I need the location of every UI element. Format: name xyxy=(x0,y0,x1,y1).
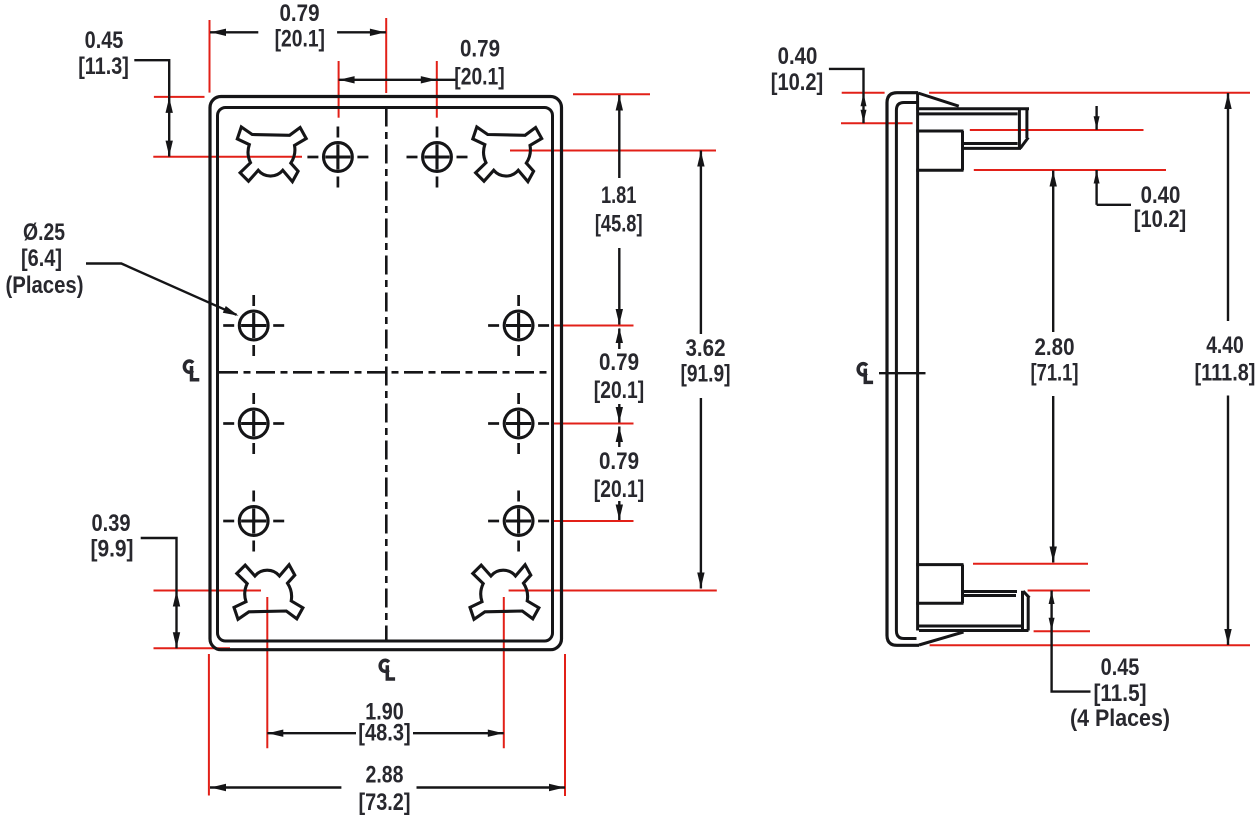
svg-text:[11.3]: [11.3] xyxy=(78,53,129,80)
dimension 3.62 [91.9] arrow up xyxy=(697,151,704,167)
dimension 0.79 [20.1] second tail xyxy=(437,79,456,81)
svg-text:[91.9]: [91.9] xyxy=(681,361,731,388)
mounting hole row2 left xyxy=(223,295,284,356)
dimension 4.40 [111.8] arrow down xyxy=(1224,629,1231,645)
dimension 1.81 [45.8] arrow down xyxy=(616,309,623,325)
dimension 0.79 [20.1] top arrow left xyxy=(211,29,227,36)
dimension 2.88 [73.2] line right xyxy=(417,786,566,788)
side view back wall inner line xyxy=(896,103,916,639)
side view bottom step line xyxy=(916,563,963,566)
extension line step bottom (side view) xyxy=(974,169,1166,171)
dimension 0.45 [11.3] leader elbow xyxy=(134,60,169,97)
dimension 0.45 [11.3] arrow line xyxy=(168,97,170,157)
side view front face vertical xyxy=(916,93,919,631)
dimension 0.45 [11.5] arrow down xyxy=(1049,618,1055,631)
extension line clip bottom-right vertical (front view) xyxy=(503,597,505,748)
side view top step line xyxy=(916,130,963,133)
dimension 0.40 [10.2] TL leader elbow xyxy=(829,69,864,93)
side view bottom chamfer diagonal xyxy=(919,632,964,645)
svg-text:0.79: 0.79 xyxy=(599,448,639,475)
extension line clip row bottom left (front view) xyxy=(154,590,262,592)
svg-text:[6.4]: [6.4] xyxy=(21,245,62,272)
hole diameter leader arrowhead xyxy=(223,306,239,316)
mounting hole row4 left xyxy=(223,491,284,552)
dimension 0.79 right2 arrow down xyxy=(616,505,623,521)
dimension 0.45 [11.5] arrow up xyxy=(1049,591,1055,604)
dimension 0.40 [10.2] TL arrow down xyxy=(861,110,867,123)
svg-text:Ø.25: Ø.25 xyxy=(23,219,65,246)
centerline symbol bottom xyxy=(380,660,395,679)
dimension 1.90 [48.3] line left xyxy=(267,732,356,734)
side view bottom tab end outer vertical xyxy=(1027,598,1030,631)
dimension 0.39 [9.9] arrow down xyxy=(173,632,180,648)
dimension 3.62 [91.9] arrow down xyxy=(697,573,704,589)
dimension 0.79 right1 arrow down xyxy=(616,407,623,423)
svg-text:4.40: 4.40 xyxy=(1206,332,1244,359)
dimension 0.79 right2 arrow line down xyxy=(618,501,620,520)
svg-text:0.79: 0.79 xyxy=(460,36,500,63)
extension line top-left tick (front view) xyxy=(154,96,205,98)
dimension 0.79 right2 arrow line up xyxy=(618,427,620,448)
extension line top-right tick (front view) xyxy=(573,93,650,95)
dimension 0.45 [11.3] arrow up xyxy=(166,97,173,113)
dimension 1.90 [48.3] line right xyxy=(413,732,504,734)
svg-text:0.79: 0.79 xyxy=(280,0,320,27)
svg-text:[9.9]: [9.9] xyxy=(91,536,134,563)
extension line clip bottom-left vertical (front view) xyxy=(266,597,268,748)
dimension 3.62 [91.9] line upper xyxy=(700,151,702,335)
svg-text:[111.8]: [111.8] xyxy=(1195,360,1256,387)
svg-text:3.62: 3.62 xyxy=(686,335,726,362)
svg-text:[20.1]: [20.1] xyxy=(454,64,504,91)
extension line bottom tab bottom (side view) xyxy=(1034,630,1090,632)
dimension 0.40 [10.2] TL arrow up xyxy=(861,93,867,106)
extension line bottom-left tick (front view) xyxy=(154,647,231,649)
dimension 0.40 [10.2] R upper arrow line xyxy=(1095,106,1097,130)
svg-text:1.81: 1.81 xyxy=(601,182,637,209)
extension line bottom step top (side view) xyxy=(973,563,1088,565)
extension line hole row 2 right (front view) xyxy=(552,325,634,327)
mounting hole row3 right xyxy=(488,393,549,454)
corner clip bottom-right xyxy=(470,565,539,620)
dimension 2.80 [71.1] line lower xyxy=(1052,396,1054,563)
extension line bottom tab top (side view) xyxy=(1028,590,1090,592)
corner clip top-left xyxy=(237,127,306,182)
dimension 0.40 [10.2] R lower arrow line xyxy=(1095,170,1097,205)
side view centerline tick xyxy=(879,372,926,374)
extension line top edge right (side view) xyxy=(929,92,1250,94)
mounting hole row3 left xyxy=(223,393,284,454)
side view top tab end outer vertical xyxy=(1025,108,1028,138)
svg-text:[73.2]: [73.2] xyxy=(359,789,411,816)
svg-text:[71.1]: [71.1] xyxy=(1031,360,1079,387)
dimension 0.45 [11.3] arrow down xyxy=(166,141,173,157)
dimension 1.81 [45.8] arrow up xyxy=(616,95,623,111)
svg-text:[11.5]: [11.5] xyxy=(1094,680,1147,707)
svg-text:[48.3]: [48.3] xyxy=(358,720,410,747)
dimension 4.40 [111.8] line lower xyxy=(1227,396,1229,646)
dimension 0.39 [9.9] arrow up xyxy=(173,591,180,607)
side view bottom tab outer top xyxy=(963,590,1017,593)
mounting hole row1 right xyxy=(407,127,468,188)
side view top tab end chamfer xyxy=(1020,138,1028,149)
dimension 0.45 [11.5] arrow line xyxy=(1050,591,1052,632)
svg-text:0.45: 0.45 xyxy=(1101,654,1140,681)
dimension 0.45 [11.5] leader elbow xyxy=(1052,631,1091,691)
mounting hole row4 right xyxy=(488,491,549,552)
side view top block bottom xyxy=(916,169,963,172)
extension line hole row 3 right (front view) xyxy=(552,423,634,425)
centerline symbol left xyxy=(184,361,199,380)
dimension 1.81 [45.8] line upper xyxy=(618,95,620,178)
extension line hole column 2 vertical (front view) xyxy=(436,61,438,118)
dimension 3.62 [91.9] line lower xyxy=(700,398,702,589)
battery holder front view inner wall outline xyxy=(218,108,553,642)
dimension 2.80 [71.1] line upper xyxy=(1052,171,1054,333)
dimension 0.79 [20.1] top line left segment xyxy=(210,31,258,33)
mounting hole row2 right xyxy=(488,295,549,356)
side view top flange inner top xyxy=(918,112,1018,115)
side view top flange outer top xyxy=(916,107,1029,110)
side view bottom tab inner bottom xyxy=(917,625,1023,628)
dimension 0.40 [10.2] TL arrow line xyxy=(862,93,864,124)
dimension 0.79 right1 arrow line up xyxy=(618,329,620,350)
extension line centerline vertical (front view) xyxy=(385,18,387,93)
corner clip top-right xyxy=(473,127,542,182)
side view bottom tab outer bottom xyxy=(919,629,1029,632)
extension line left edge vertical (front view) xyxy=(209,20,211,93)
dimension 2.80 [71.1] arrow down xyxy=(1050,547,1057,563)
extension line bottom edge (side view) xyxy=(930,644,1250,646)
svg-text:(Places): (Places) xyxy=(6,272,84,299)
dimension 2.88 [73.2] arrow left xyxy=(211,784,227,791)
dimension 1.90 [48.3] arrow right xyxy=(488,730,504,737)
side view bottom tab inner top xyxy=(964,594,1017,597)
svg-text:[20.1]: [20.1] xyxy=(594,476,644,503)
side view top tab inner bottom xyxy=(963,142,1018,145)
svg-text:[45.8]: [45.8] xyxy=(595,211,643,238)
extension line clip row bottom right (front view) xyxy=(509,590,717,592)
centerline symbol side view xyxy=(858,364,873,383)
svg-text:[20.1]: [20.1] xyxy=(275,26,325,53)
side view top tab end inner vertical xyxy=(1018,108,1021,148)
dimension 2.88 [73.2] arrow right xyxy=(549,784,565,791)
dimension 0.40 [10.2] R leader elbow xyxy=(1097,204,1131,206)
side view bottom block bottom xyxy=(916,602,963,605)
vertical centerline (front view) xyxy=(385,108,388,642)
dimension 0.79 [20.1] top line right segment xyxy=(337,31,386,33)
svg-text:0.45: 0.45 xyxy=(85,27,124,54)
dimension 2.88 [73.2] line left xyxy=(210,786,341,788)
dimension 0.79 right1 arrow up xyxy=(616,328,623,344)
dimension 0.79 [20.1] second arrow left xyxy=(339,76,355,83)
svg-text:2.80: 2.80 xyxy=(1035,334,1075,361)
mounting hole row1 left xyxy=(307,127,368,188)
svg-text:0.39: 0.39 xyxy=(92,510,131,537)
dimension 2.80 [71.1] arrow up xyxy=(1050,171,1057,187)
side view back wall outer outline xyxy=(887,93,919,646)
svg-text:[10.2]: [10.2] xyxy=(1134,206,1187,233)
svg-text:0.40: 0.40 xyxy=(778,43,818,70)
dimension 1.81 [45.8] line lower xyxy=(618,248,620,325)
svg-text:[20.1]: [20.1] xyxy=(594,377,644,404)
side view top chamfer diagonal xyxy=(918,93,959,106)
dimension 0.79 right2 arrow up xyxy=(616,427,623,443)
dimension 0.39 [9.9] leader elbow xyxy=(141,538,177,591)
side view top block right edge xyxy=(961,131,964,170)
dimension 0.79 [20.1] second line xyxy=(339,79,437,81)
extension line top edge left (side view) xyxy=(842,92,885,94)
side view bottom tab end chamfer xyxy=(1023,591,1029,598)
svg-text:[10.2]: [10.2] xyxy=(771,69,824,96)
dimension 0.79 [20.1] second arrow right xyxy=(421,76,437,83)
battery holder front view outer body outline xyxy=(210,97,562,650)
dimension 4.40 [111.8] arrow up xyxy=(1224,94,1231,110)
svg-text:2.88: 2.88 xyxy=(366,762,404,789)
svg-text:0.40: 0.40 xyxy=(1141,182,1181,209)
dimension 0.40 [10.2] R arrow down xyxy=(1094,116,1100,129)
hole diameter leader line xyxy=(86,264,237,315)
side view top tab outer bottom xyxy=(963,147,1021,150)
extension line clip row 1 right (front view) xyxy=(510,150,716,152)
dimension 1.90 [48.3] arrow left xyxy=(268,730,284,737)
dimension 0.40 [10.2] R arrow up xyxy=(1094,171,1100,184)
dimension 0.79 [20.1] top arrow right xyxy=(370,29,386,36)
side view bottom tab end inner vertical xyxy=(1021,591,1024,631)
extension line overall width right vertical (front view) xyxy=(564,654,566,796)
extension line hole row 1 left (front view) xyxy=(153,156,302,158)
corner clip bottom-left xyxy=(234,565,303,620)
svg-text:(4 Places): (4 Places) xyxy=(1070,705,1170,732)
dimension 0.39 [9.9] arrow line xyxy=(175,591,177,649)
extension line flange underside left (side view) xyxy=(841,122,913,124)
extension line hole row 4 right (front view) xyxy=(552,520,634,522)
horizontal centerline (front view) xyxy=(219,371,553,374)
dimension 0.79 right1 arrow line down xyxy=(618,404,620,423)
extension line flange underside right (side view) xyxy=(970,129,1144,131)
dimension 4.40 [111.8] line upper xyxy=(1227,93,1229,321)
extension line overall width left vertical (front view) xyxy=(208,654,210,796)
side view bottom block right edge xyxy=(961,565,964,604)
svg-text:0.79: 0.79 xyxy=(599,349,639,376)
extension line hole column 1 vertical (front view) xyxy=(338,61,340,118)
